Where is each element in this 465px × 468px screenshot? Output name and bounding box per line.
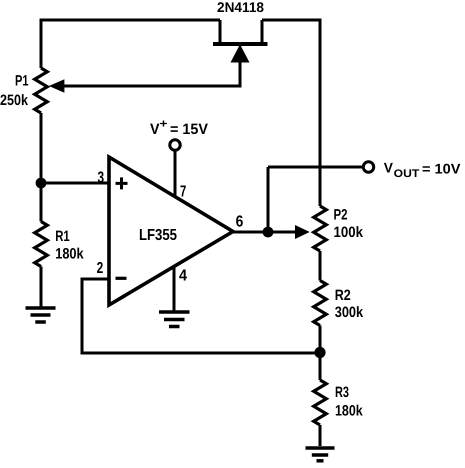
ground under pin 4 [159,312,190,327]
svg-text:LF355: LF355 [139,227,177,244]
svg-text:OUT: OUT [394,168,420,180]
wire R1 bottom to ground [40,267,43,307]
ground under R1 [26,308,56,322]
svg-text:100k: 100k [334,224,364,241]
ground under R3 [306,448,335,461]
wire pin 4 to ground [173,267,176,311]
potentiometer P1 [35,68,48,113]
svg-text:4: 4 [179,268,187,285]
wire output node up to VOUT [267,167,270,232]
label VOUT = 10V [384,160,461,181]
svg-text:2: 2 [97,260,104,277]
wire pin 7 to V+ terminal [174,150,177,196]
potentiometer P2 wiper arrow [296,226,309,238]
wire P1 bottom to R1 top [40,113,43,222]
svg-text:180k: 180k [335,402,363,419]
svg-text:= 10V: = 10V [422,161,461,177]
node B junction dot [314,347,325,358]
svg-text:R3: R3 [335,384,349,401]
wire node A to op-amp pin 3 [41,182,108,185]
wire R3 bottom to ground [319,425,322,446]
potentiometer P1 wiper arrow [50,80,64,92]
label V+ = 15V [150,117,208,139]
node A junction dot [36,178,47,189]
wire top rail right (Q1 drain to right rail) [262,19,320,207]
svg-text:7: 7 [180,184,186,201]
plus symbol (noninverting input) [116,177,128,189]
svg-text:300k: 300k [335,304,364,321]
svg-text:P1: P1 [15,73,29,90]
op-amp U1 LF355 triangle [109,157,233,305]
svg-text:V: V [150,121,160,138]
wire op-amp output pin 6 to P2 wiper arrow [233,231,297,234]
svg-text:3: 3 [98,170,105,187]
resistor R3 [314,380,327,425]
svg-text:R1: R1 [55,228,69,245]
terminal circle V+ [170,140,180,150]
wire R2 bottom to node B and R3 top [319,326,322,381]
wire P2 bottom to R2 top [319,251,322,281]
svg-text:6: 6 [236,213,244,230]
svg-text:2N4118: 2N4118 [217,0,264,15]
transistor Q1 2N4118 [213,20,268,88]
wire VOUT to terminal [268,166,363,169]
minus symbol (inverting input) [116,277,127,280]
svg-text:P2: P2 [334,207,348,224]
wire gate to P1 wiper [63,85,241,88]
output node junction dot [263,227,274,238]
svg-text:180k: 180k [55,245,84,262]
svg-text:V: V [384,160,394,176]
svg-text:R2: R2 [335,287,351,304]
svg-text:250k: 250k [0,92,29,109]
svg-text:+: + [160,117,168,131]
wire top rail left (P1 top to Q1 source) [40,20,221,68]
resistor R1 [35,222,48,267]
potentiometer P2 [314,206,327,251]
wire feedback pin 2 to node B [82,279,320,353]
svg-text:= 15V: = 15V [170,121,208,138]
resistor R2 [314,281,327,326]
terminal circle VOUT [363,162,373,172]
